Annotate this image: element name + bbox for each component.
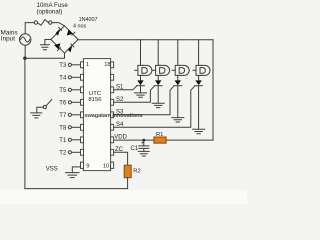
svg-text:10: 10 xyxy=(103,163,109,169)
label ZC xyxy=(115,147,124,153)
AC source V1 Mains xyxy=(20,34,31,45)
wire mains circle bottom to junction xyxy=(24,45,26,58)
ground SCR2 xyxy=(152,103,164,107)
wire bottom rail xyxy=(25,188,128,190)
svg-text:1N4007: 1N4007 xyxy=(79,17,98,23)
wire R2 bottom to bottom rail xyxy=(127,178,129,189)
ground C1 xyxy=(138,151,149,156)
terminal T7 pin5 xyxy=(68,113,80,116)
ground at bridge left corner xyxy=(45,40,51,45)
SCR Q2 xyxy=(154,80,162,103)
svg-text:T1: T1 xyxy=(59,138,67,144)
svg-text:swagatam innovations: swagatam innovations xyxy=(85,113,143,119)
svg-text:(optional): (optional) xyxy=(37,9,63,16)
svg-text:1: 1 xyxy=(86,62,89,68)
lamp L4 xyxy=(193,40,210,81)
wire S3 to SCR3 gate xyxy=(114,86,175,115)
svg-text:R1: R1 xyxy=(156,132,163,138)
wire S2 to SCR2 gate xyxy=(114,86,155,103)
terminal T4 pin2 xyxy=(68,76,80,79)
wire ZC to R2 xyxy=(114,152,128,165)
pin boxes left side xyxy=(81,62,84,169)
svg-text:18: 18 xyxy=(104,62,110,68)
wire right bus xyxy=(212,40,214,140)
bridge rectifier BR1 diamond xyxy=(51,26,78,53)
SCR Q4 xyxy=(195,80,203,129)
svg-text:C1: C1 xyxy=(131,146,139,152)
capacitor C1 xyxy=(143,140,145,146)
svg-text:4 nos: 4 nos xyxy=(73,24,86,30)
label Mains Input xyxy=(1,30,18,43)
svg-text:VDD: VDD xyxy=(114,134,127,140)
wire S4 to SCR4 gate xyxy=(114,86,195,128)
wire VDD to right bus through R1 xyxy=(114,139,213,141)
lamp L1 xyxy=(135,40,152,81)
IC U1 UTC8156 body xyxy=(83,59,110,171)
ground at switch xyxy=(31,113,42,118)
svg-text:T4: T4 xyxy=(59,76,67,82)
terminal T6 pin4 xyxy=(68,101,80,104)
SCR Q1 xyxy=(137,80,145,93)
terminal T2 pin8 xyxy=(68,151,80,154)
svg-text:T6: T6 xyxy=(59,101,67,107)
diode D3 bottom-left xyxy=(54,43,60,50)
resistor R2 xyxy=(124,165,131,178)
label 10mA Fuse xyxy=(37,2,69,15)
label 1N4007 4nos xyxy=(73,17,97,29)
pin boxes right side xyxy=(111,62,114,169)
diode D2 top-right xyxy=(67,29,75,35)
svg-text:8156: 8156 xyxy=(88,97,102,103)
svg-text:T3: T3 xyxy=(59,63,67,69)
terminal T3 pin1 xyxy=(68,63,80,66)
diode D1 top-left xyxy=(56,27,62,35)
wire fuse to bridge top corner xyxy=(52,23,65,26)
svg-text:VSS: VSS xyxy=(46,166,58,172)
terminal T1 pin7 xyxy=(68,138,80,141)
label S4 xyxy=(116,122,124,128)
terminal T5 pin3 xyxy=(68,88,80,91)
fuse F1 xyxy=(34,21,37,24)
svg-text:+: + xyxy=(141,141,145,147)
svg-text:9: 9 xyxy=(86,164,89,170)
label S1 xyxy=(116,84,124,90)
svg-text:R2: R2 xyxy=(133,168,140,174)
resistor R1 xyxy=(154,137,166,143)
wire mains top to fuse xyxy=(25,23,34,34)
svg-text:T2: T2 xyxy=(59,151,67,157)
label VDD xyxy=(114,134,127,140)
label S3 xyxy=(116,109,124,115)
svg-text:UTC: UTC xyxy=(89,91,102,97)
ground VSS xyxy=(66,173,80,178)
wire S1 to SCR1 gate xyxy=(114,86,137,90)
ground SCR4 xyxy=(193,129,205,133)
junction dot mains bottom xyxy=(23,57,26,60)
ground SCR1 xyxy=(135,93,147,97)
wire top bus xyxy=(78,39,213,41)
wire bridge bottom to mains xyxy=(25,53,65,58)
svg-text:T8: T8 xyxy=(59,126,67,132)
VSS pin9 wire and ground xyxy=(72,167,80,173)
SCR Q3 xyxy=(174,80,182,117)
svg-text:Input: Input xyxy=(1,36,15,43)
svg-text:T7: T7 xyxy=(59,113,67,119)
switch S0 touch plate xyxy=(43,105,46,108)
ground SCR3 xyxy=(172,118,184,122)
label S2 xyxy=(116,97,124,103)
junction dot C1 tap xyxy=(142,139,145,142)
diode D4 bottom-right xyxy=(68,44,74,52)
svg-text:T5: T5 xyxy=(59,88,67,94)
lamp L2 xyxy=(153,40,170,81)
wire left rail down xyxy=(24,58,26,188)
terminal T8 pin6 xyxy=(68,126,80,129)
lamp L3 xyxy=(172,40,189,81)
